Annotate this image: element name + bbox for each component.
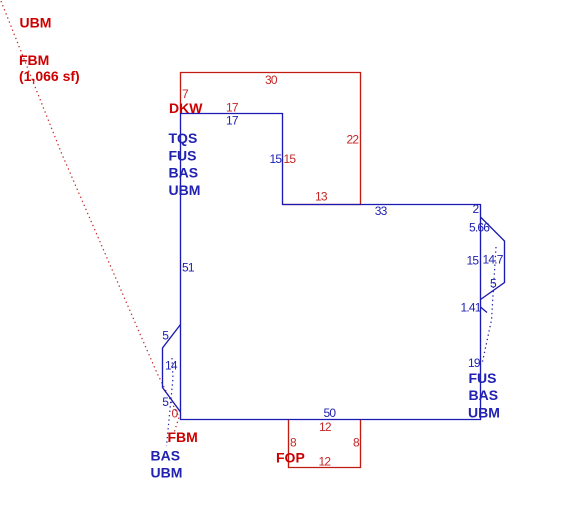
svg-text:51: 51 xyxy=(182,260,195,274)
svg-text:1.41: 1.41 xyxy=(461,301,482,315)
svg-text:8: 8 xyxy=(290,436,297,450)
svg-text:FUS: FUS xyxy=(169,147,197,163)
svg-text:15: 15 xyxy=(467,254,480,268)
svg-text:TQS: TQS xyxy=(169,130,198,146)
svg-text:17: 17 xyxy=(226,101,239,115)
svg-text:8: 8 xyxy=(353,436,360,450)
svg-text:BAS: BAS xyxy=(151,447,181,463)
svg-text:FOP: FOP xyxy=(276,450,305,466)
svg-text:12: 12 xyxy=(319,420,332,434)
svg-text:5.66: 5.66 xyxy=(469,221,490,235)
svg-text:30: 30 xyxy=(265,73,278,87)
svg-text:12: 12 xyxy=(319,455,332,469)
svg-text:33: 33 xyxy=(375,204,388,218)
svg-text:(1,066 sf): (1,066 sf) xyxy=(19,68,80,84)
svg-text:DKW: DKW xyxy=(169,100,203,116)
svg-text:15: 15 xyxy=(284,152,297,166)
svg-text:FBM: FBM xyxy=(168,429,198,445)
svg-text:UBM: UBM xyxy=(20,15,52,31)
svg-text:5: 5 xyxy=(162,395,169,409)
svg-text:22: 22 xyxy=(347,133,360,147)
svg-text:17: 17 xyxy=(226,114,239,128)
svg-text:UBM: UBM xyxy=(468,405,500,421)
svg-text:15: 15 xyxy=(270,152,283,166)
svg-text:UBM: UBM xyxy=(151,464,183,480)
svg-text:14: 14 xyxy=(165,359,178,373)
svg-text:7: 7 xyxy=(182,87,189,101)
svg-text:14.7: 14.7 xyxy=(483,253,504,267)
svg-text:19: 19 xyxy=(468,356,481,370)
svg-text:BAS: BAS xyxy=(469,387,499,403)
svg-text:FBM: FBM xyxy=(19,52,49,68)
svg-text:50: 50 xyxy=(324,406,337,420)
svg-text:BAS: BAS xyxy=(169,165,199,181)
svg-text:13: 13 xyxy=(315,190,328,204)
svg-text:UBM: UBM xyxy=(169,182,201,198)
svg-text:FUS: FUS xyxy=(469,370,497,386)
